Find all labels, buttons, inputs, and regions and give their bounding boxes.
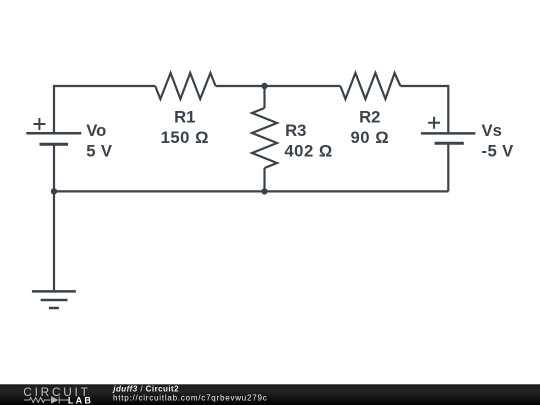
ground <box>32 290 76 293</box>
wire right vertical upper <box>447 85 449 133</box>
svg-text:Vs: Vs <box>482 121 502 140</box>
plus sign of Vs <box>428 117 440 129</box>
wire R3 top stub <box>263 86 265 108</box>
svg-text:150 Ω: 150 Ω <box>161 128 209 147</box>
svg-text:LAB: LAB <box>68 395 92 405</box>
wire left vertical upper <box>53 85 55 133</box>
svg-text:5 V: 5 V <box>86 142 113 161</box>
svg-text:R2: R2 <box>359 108 380 127</box>
node junction dot R3 bottom <box>261 188 267 194</box>
wire R3 bottom stub <box>263 168 265 191</box>
node junction dot R3 top <box>261 83 267 89</box>
voltage source V2 Vs top plate <box>421 132 475 135</box>
voltage source V1 Vo bottom plate <box>40 143 69 146</box>
svg-text:Vo: Vo <box>86 121 106 140</box>
logo diode triangle <box>51 396 59 403</box>
wire left vertical lower <box>53 144 55 191</box>
svg-text:jduff3 / Circuit2: jduff3 / Circuit2 <box>112 384 179 393</box>
plus sign of Vo <box>33 118 45 130</box>
wire R1 to node <box>216 85 341 87</box>
wire top-left segment <box>54 85 155 87</box>
resistor R2 <box>340 73 400 99</box>
svg-text:R3: R3 <box>285 121 306 140</box>
logo motif wire + resistor + diode <box>24 397 68 404</box>
svg-text:-5 V: -5 V <box>482 142 515 161</box>
voltage source V1 Vo top plate <box>26 132 81 135</box>
wire R2 to top-right corner <box>400 85 448 87</box>
svg-text:R1: R1 <box>174 108 195 127</box>
wire ground stub <box>53 191 55 291</box>
wire right vertical lower <box>447 143 449 191</box>
resistor R3 <box>252 108 277 168</box>
svg-text:402 Ω: 402 Ω <box>284 141 332 160</box>
resistor R1 <box>155 73 215 99</box>
svg-text:http://circuitlab.com/c7qrbevw: http://circuitlab.com/c7qrbevwu279c <box>113 393 267 402</box>
wire bottom rail <box>54 190 448 192</box>
voltage source V2 Vs bottom plate <box>435 142 464 145</box>
node junction dot left-bottom <box>51 188 57 194</box>
svg-text:90 Ω: 90 Ω <box>351 128 390 147</box>
